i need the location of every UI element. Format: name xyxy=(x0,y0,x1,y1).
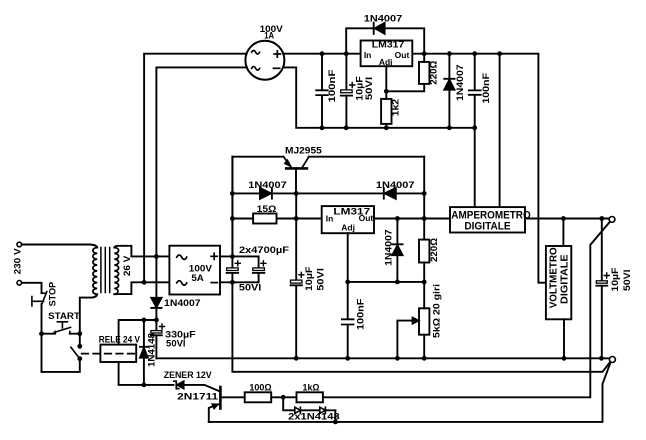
voltmeter V1 VOLTMETRO DIGITALE xyxy=(562,219,564,247)
svg-text:10µF: 10µF xyxy=(304,266,315,291)
bridge rectifier B1 100V 1A (circle symbol) xyxy=(245,41,284,80)
capacitor C9 330uF 50Vl xyxy=(155,320,157,358)
diode D7 1N4148 (relay flyback) xyxy=(143,320,145,385)
wire: base node down to In wire xyxy=(295,193,297,218)
wire: primary bottom to start node xyxy=(80,294,97,333)
svg-text:1N4007: 1N4007 xyxy=(376,180,415,191)
wire: relay coil bottom to zener line xyxy=(119,362,174,385)
svg-text:2x4700µF: 2x4700µF xyxy=(239,245,289,256)
wire: relay supply node xyxy=(119,320,157,345)
capacitor C4 10uF 50Vl (main, electrolytic) xyxy=(295,219,297,359)
diode D5 1N4007 (Out to Adj, vertical) xyxy=(396,219,398,282)
wire: hold loop under switches xyxy=(42,334,80,372)
svg-text:50Vl: 50Vl xyxy=(239,283,261,294)
wire: 230V neutral to STOP xyxy=(22,283,42,293)
B1 minus terminal mark xyxy=(274,67,280,69)
svg-text:10µF: 10µF xyxy=(610,267,621,291)
P1 wiper arrow xyxy=(397,321,412,359)
svg-text:100Ω: 100Ω xyxy=(249,382,272,393)
regulator U2 LM317 (main) xyxy=(322,206,374,233)
junction dots main section xyxy=(230,191,427,284)
capacitor C2 10uF 50Vl (aux input electrolytic) xyxy=(345,54,347,128)
transistor Q2 2N1711 xyxy=(219,387,222,409)
capacitor C7 4700uF (first) xyxy=(231,256,233,282)
relay contact K1a xyxy=(79,334,81,347)
switch S1 STOP (NC pushbutton) xyxy=(42,292,47,294)
diode D3 1N4007 (left horizontal, pointing right) xyxy=(232,192,296,194)
transistor Q1 MJ2955 xyxy=(286,167,307,170)
resistor R4 220 ohm (main) xyxy=(419,240,429,263)
svg-text:MJ2955: MJ2955 xyxy=(285,145,322,156)
svg-text:STOP: STOP xyxy=(47,281,58,306)
wire: secondary top node down through D6 xyxy=(155,256,157,320)
diode D1 1N4007 (top bypass, pointing left) xyxy=(373,23,375,34)
B2 plus mark xyxy=(211,253,217,259)
svg-text:1N4007: 1N4007 xyxy=(364,14,403,25)
wire: ground rail (main bottom) xyxy=(156,357,609,359)
svg-text:In: In xyxy=(364,50,372,60)
transformer T1 primary winding xyxy=(93,248,97,295)
wire: main right rail top xyxy=(423,157,425,219)
capacitor C8 4700uF (second) xyxy=(258,256,260,282)
wire: B1 - output down to aux bottom rail xyxy=(283,67,475,127)
wire: B1 + output to LM317 In xyxy=(283,53,360,55)
wire: B2 - to filter caps xyxy=(220,281,259,283)
svg-text:DIGITALE: DIGITALE xyxy=(559,254,570,304)
capacitor C3 100nF (aux output) xyxy=(474,54,476,207)
wire: B2 - line down to output terminal xyxy=(232,282,610,372)
wire: main left rail xyxy=(231,157,233,257)
terminal J1 output + (circle) xyxy=(609,217,615,223)
svg-text:VOLTMETRO: VOLTMETRO xyxy=(548,247,559,308)
svg-text:1k2: 1k2 xyxy=(391,99,402,117)
wire: AC feed outer (left vertical to B1 top input) xyxy=(144,54,247,283)
wire: secondary top tap to bridge xyxy=(114,246,169,257)
svg-text:2N1711: 2N1711 xyxy=(177,392,219,403)
resistor R3 15 ohm xyxy=(232,218,321,220)
wire: 230V line to transformer primary xyxy=(22,245,98,248)
svg-text:5kΩ 20 giri: 5kΩ 20 giri xyxy=(432,284,443,338)
B1 plus terminal mark xyxy=(274,51,280,57)
transformer T1 secondary winding 26V xyxy=(114,248,118,295)
switch S2 START (NO pushbutton) xyxy=(42,333,80,335)
resistor R1 220 ohm (aux) xyxy=(419,62,429,84)
B1 ac tilde top xyxy=(252,50,260,54)
resistor R5 100 ohm xyxy=(245,392,272,402)
potentiometer P1 5k 20 giri xyxy=(419,308,429,334)
wire: secondary bottom tap to bridge xyxy=(114,282,169,294)
capacitor C6 10uF 50Vl (output electrolytic) xyxy=(601,219,603,359)
svg-text:220Ω: 220Ω xyxy=(429,60,440,84)
junction dots transformer/bridge section xyxy=(39,254,235,361)
svg-text:5A: 5A xyxy=(191,273,204,284)
svg-text:In: In xyxy=(326,214,334,224)
bridge rectifier B2 100V 5A (box) xyxy=(169,246,220,295)
svg-text:15Ω: 15Ω xyxy=(257,204,277,215)
wire: main + column (B2 + up to MJ2955) xyxy=(231,157,233,257)
svg-text:1N4007: 1N4007 xyxy=(248,180,287,191)
transformer T1 core xyxy=(101,248,110,293)
svg-text:ZENER 12V: ZENER 12V xyxy=(164,370,213,381)
diode D4 1N4007 (right horizontal, pointing left) xyxy=(296,192,424,194)
wire: U2 Out to ammeter xyxy=(374,218,450,220)
junction dots output section xyxy=(294,216,604,361)
svg-text:2x1N4148: 2x1N4148 xyxy=(288,412,340,423)
wire: output + rail to terminal xyxy=(525,218,609,220)
wire: bypass diode loop over LM317 (top) xyxy=(346,28,424,53)
svg-text:RELE 24 V: RELE 24 V xyxy=(99,335,140,345)
wire: main top rail (MJ2955 emitter/collector run) xyxy=(232,156,424,158)
resistor R6 1k ohm xyxy=(297,392,323,402)
svg-text:26 V: 26 V xyxy=(122,255,133,276)
svg-text:Adj: Adj xyxy=(341,223,355,233)
svg-text:1N4148: 1N4148 xyxy=(146,333,157,367)
B2 minus mark xyxy=(211,282,217,284)
svg-text:100nF: 100nF xyxy=(327,69,338,102)
relay K1 RELE 24 V (coil) xyxy=(100,345,136,362)
wire: output + sense down to collector line xyxy=(323,222,610,397)
diode D2 1N4007 (aux output clamp, vertical) xyxy=(448,54,450,128)
svg-text:100nF: 100nF xyxy=(481,73,492,104)
wire: aux supply + down to ammeter xyxy=(499,54,501,207)
regulator U1 LM317 (aux) xyxy=(361,41,413,67)
wire: voltmeter bottom to ground rail xyxy=(563,319,565,358)
svg-text:1N4007: 1N4007 xyxy=(455,64,466,101)
svg-text:50Vl: 50Vl xyxy=(364,77,375,100)
diode DZ1 ZENER 12V xyxy=(174,381,179,388)
terminal block 230V input circles xyxy=(17,242,22,247)
wire: aux top rail Out side to voltmeter left xyxy=(412,54,546,283)
wire: B2 + to filter caps xyxy=(220,255,259,257)
wire: U2 Adj down and right xyxy=(348,233,425,282)
svg-text:100nF: 100nF xyxy=(356,298,367,330)
svg-text:50Vl: 50Vl xyxy=(622,269,633,291)
svg-text:Out: Out xyxy=(395,50,410,60)
diodes D8 D9 2x1N4148 (series pair) xyxy=(283,397,295,410)
svg-text:1N4007: 1N4007 xyxy=(164,298,201,309)
svg-text:1A: 1A xyxy=(264,30,274,41)
wire: U1 Adj to divider node xyxy=(386,66,424,91)
B1 ac tilde bottom xyxy=(252,67,260,71)
junction dots relay/driver section xyxy=(142,318,338,425)
svg-text:Out: Out xyxy=(359,213,374,223)
wire: emitter return to output terminal xyxy=(209,363,611,422)
svg-text:220Ω: 220Ω xyxy=(429,238,440,262)
svg-text:1N4007: 1N4007 xyxy=(383,229,394,266)
svg-text:50Vl: 50Vl xyxy=(166,338,186,349)
svg-text:230 V: 230 V xyxy=(13,248,24,275)
diode D6 1N4007 (pointing down) xyxy=(151,298,161,307)
svg-text:START: START xyxy=(48,311,80,322)
wire: AC feed inner (to B1 lower input) xyxy=(156,67,247,256)
svg-text:50Vl: 50Vl xyxy=(315,268,326,291)
terminal J2 output - (circle) xyxy=(609,357,615,363)
svg-text:DIGITALE: DIGITALE xyxy=(464,221,510,233)
junction dots aux section xyxy=(320,51,502,130)
svg-text:1kΩ: 1kΩ xyxy=(303,382,320,393)
capacitor C5 100nF (Adj to ground) xyxy=(347,282,349,358)
resistor R2 1k2 (aux) xyxy=(381,99,391,124)
capacitor C1 100nF (aux input) xyxy=(321,54,323,128)
svg-text:LM317: LM317 xyxy=(372,40,405,50)
ammeter A1 AMPEROMETRO DIGITALE xyxy=(450,207,525,232)
